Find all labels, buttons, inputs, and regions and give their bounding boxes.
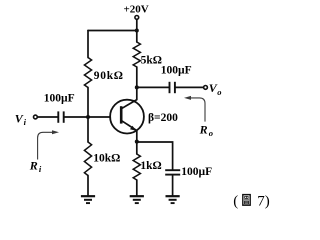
svg-text:+20V: +20V — [124, 3, 149, 15]
svg-text:1kΩ: 1kΩ — [140, 160, 161, 172]
svg-text:7): 7) — [257, 194, 270, 210]
svg-text:90kΩ: 90kΩ — [94, 70, 124, 82]
svg-text:5kΩ: 5kΩ — [141, 54, 162, 66]
svg-text:100µF: 100µF — [44, 93, 75, 105]
svg-text:V: V — [15, 111, 24, 125]
svg-text:o: o — [217, 87, 221, 97]
svg-text:100µF: 100µF — [161, 64, 192, 76]
svg-text:o: o — [209, 128, 213, 138]
svg-text:(: ( — [233, 194, 238, 210]
svg-text:100µF: 100µF — [181, 166, 212, 178]
svg-text:β=200: β=200 — [148, 112, 178, 124]
svg-text:R: R — [199, 122, 208, 136]
svg-text:10kΩ: 10kΩ — [93, 152, 120, 164]
svg-text:R: R — [29, 159, 38, 173]
